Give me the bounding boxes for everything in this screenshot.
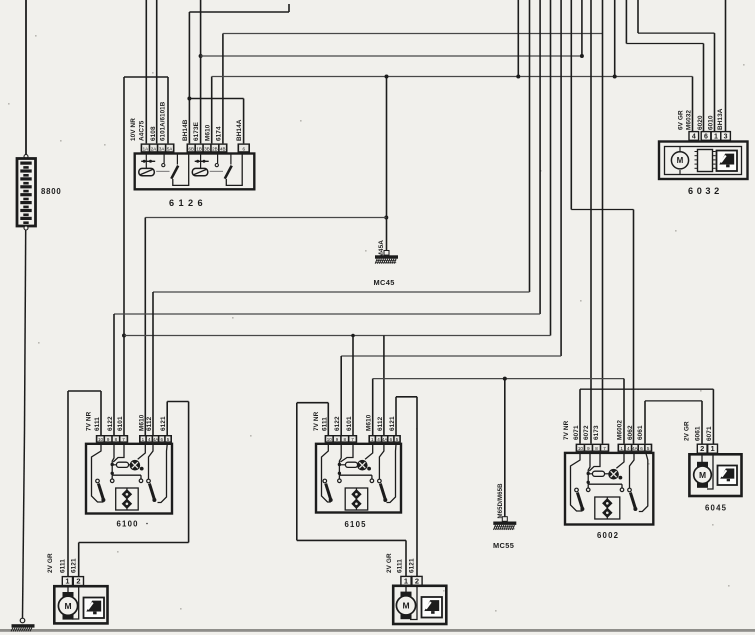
connector pins of 6045: [697, 444, 717, 453]
svg-text:6121: 6121: [71, 558, 78, 573]
front-left window motor box: [54, 586, 107, 623]
svg-text:M: M: [699, 470, 706, 480]
svg-text:2: 2: [700, 444, 704, 453]
svg-text:10: 10: [98, 437, 104, 442]
svg-text:6122: 6122: [334, 416, 341, 431]
relay box 6126: [135, 154, 255, 190]
wire 8800 top feed: [25, 0, 27, 155]
svg-text:8800: 8800: [41, 187, 62, 196]
svg-text:M610: M610: [366, 414, 373, 431]
svg-text:3A: 3A: [159, 147, 165, 152]
bundle wire 3 (net 6122 front left): [114, 0, 540, 314]
svg-text:6020: 6020: [697, 115, 704, 130]
wire 6122 into 6100: [113, 314, 115, 435]
svg-text:M65D/M65B: M65D/M65B: [497, 483, 504, 519]
ground for 8800 (bottom left): [11, 618, 35, 631]
window motor box 6045: [689, 454, 741, 496]
net 6101 riser and link to 6126: [122, 77, 168, 338]
net 6173E horizontal: [201, 54, 584, 58]
svg-text:M6032: M6032: [685, 110, 692, 130]
svg-text:6111: 6111: [94, 417, 101, 431]
switch connector block (two diamonds): [116, 488, 139, 511]
svg-text:M: M: [64, 601, 71, 611]
wire 6108: [156, 0, 158, 143]
svg-text:6173E: 6173E: [193, 121, 200, 141]
svg-text:6061: 6061: [637, 425, 644, 440]
svg-text:2V GR: 2V GR: [684, 421, 691, 441]
wire M45A to ground MC45: [384, 77, 388, 255]
motor symbol front-left: [58, 586, 78, 620]
connector strips of 6105: [325, 435, 401, 443]
bundle wire 8 (net 6072): [590, 0, 592, 444]
svg-text:1: 1: [711, 444, 715, 453]
wire BH14A: [243, 99, 245, 144]
labels of 6100 wires: [86, 411, 168, 431]
labels of mid motor wires: [386, 553, 416, 573]
motor symbol 6045: [694, 454, 713, 489]
wire M610 into 6105: [372, 379, 374, 435]
svg-text:6071: 6071: [573, 425, 580, 440]
svg-text:1: 1: [404, 576, 408, 585]
wire M6032 drop: [692, 77, 694, 132]
connector pins of front-left motor: [62, 577, 83, 586]
wire M6002 drop: [623, 379, 625, 444]
window glass icon mid: [422, 597, 443, 618]
bundle wire 10 (to M610 net): [614, 0, 616, 77]
svg-text:M: M: [677, 156, 684, 165]
switch internal wiring: [322, 445, 397, 503]
wire M610 from 6126: [211, 77, 213, 144]
wire BH13A: [725, 0, 727, 132]
svg-text:6010: 6010: [707, 115, 714, 130]
bundle wire 12 (net 6010): [638, 0, 715, 132]
svg-text:5A: 5A: [167, 147, 173, 152]
svg-text:6062: 6062: [627, 425, 634, 440]
svg-text:2V GR: 2V GR: [386, 553, 393, 573]
svg-text:6: 6: [704, 133, 708, 140]
wire 6071 and link to 6045 pin 1: [580, 389, 713, 444]
svg-text:2V GR: 2V GR: [47, 553, 54, 573]
svg-text:6112: 6112: [377, 416, 384, 431]
wire 6173E riser: [199, 0, 203, 143]
wire 6121 / bracket to motor pin 2: [79, 402, 189, 577]
svg-text:3B: 3B: [204, 147, 210, 152]
net M610 branch to 6100: [145, 218, 386, 436]
svg-text:6B: 6B: [188, 147, 194, 152]
labels of 6045 wires: [684, 421, 714, 441]
bundle wire 2 (net 6112 front left): [153, 0, 530, 292]
svg-text:6126: 6126: [169, 198, 207, 208]
svg-text:7V NR: 7V NR: [313, 411, 320, 431]
svg-text:6108: 6108: [150, 126, 157, 141]
svg-text:1A: 1A: [143, 147, 149, 152]
switch box 6100: [86, 444, 172, 514]
svg-text:BH13A: BH13A: [717, 108, 724, 130]
svg-text:6105: 6105: [345, 520, 367, 529]
svg-text:1: 1: [714, 133, 718, 140]
svg-text:1B: 1B: [196, 147, 202, 152]
svg-text:M6002: M6002: [617, 420, 624, 440]
svg-text:6111: 6111: [321, 417, 328, 431]
svg-text:M610: M610: [204, 124, 211, 141]
svg-text:10V NR: 10V NR: [130, 118, 137, 141]
svg-text:2A: 2A: [151, 147, 157, 152]
svg-text:6121: 6121: [389, 416, 396, 431]
svg-text:M610: M610: [138, 414, 145, 431]
labels of 6002 wires: [563, 420, 644, 440]
wire 6101 into 6100: [123, 336, 125, 436]
svg-text:4B: 4B: [220, 147, 226, 152]
relay 1 of 6126: [139, 153, 189, 186]
wire 6122 into 6105: [340, 356, 342, 435]
switch contact right: [378, 445, 388, 503]
switch internal wiring: [92, 445, 168, 503]
svg-text:6112: 6112: [146, 416, 153, 431]
connector pins of 6032: [689, 132, 730, 141]
bundle wire 11 (net 6020): [626, 0, 703, 132]
wire 6121 / bracket to mid motor pin 2: [396, 397, 417, 577]
svg-text:6122: 6122: [107, 416, 114, 431]
svg-text:MC45: MC45: [374, 278, 395, 287]
svg-text:6061: 6061: [695, 426, 702, 441]
wire 6101 into 6105: [351, 334, 355, 435]
svg-text:6111: 6111: [397, 559, 404, 573]
svg-text:6101: 6101: [117, 416, 124, 431]
switch box 6105: [316, 444, 401, 513]
ground MC45: [384, 251, 389, 256]
svg-text:4A: 4A: [632, 446, 638, 451]
svg-text:7V NR: 7V NR: [86, 411, 93, 431]
bundle wire 6 (net 6062): [571, 0, 633, 444]
labels of 6032 wires: [678, 108, 724, 130]
window glass icon 6045: [718, 466, 738, 486]
svg-text:10: 10: [327, 437, 333, 442]
motor unit box 6032: [659, 142, 748, 180]
svg-text:2: 2: [76, 577, 80, 586]
wire M65D/M65B to ground MC55: [504, 379, 506, 521]
svg-text:6100: 6100: [117, 520, 139, 529]
window glass icon in 6032: [717, 151, 738, 172]
svg-text:2: 2: [415, 576, 419, 585]
wire 6112 into 6105: [383, 336, 385, 436]
svg-text:6032: 6032: [688, 186, 723, 196]
svg-text:1: 1: [65, 577, 69, 586]
wire 8800 bottom to ground: [23, 226, 29, 618]
mid window motor box: [393, 586, 446, 624]
bundle wire 4 (net 6101): [124, 0, 551, 336]
connector strips of 6002: [576, 444, 653, 452]
motor symbol mid: [396, 585, 417, 619]
svg-text:6121: 6121: [409, 558, 416, 573]
connector pins of mid motor: [401, 576, 422, 585]
svg-text:3: 3: [724, 133, 728, 140]
wire 6061 and link to 6045 pin 2: [645, 401, 702, 444]
labels of 6105 wires: [313, 411, 396, 431]
wire 6111 / bracket to motor pin 1: [68, 391, 101, 577]
svg-text:6V GR: 6V GR: [678, 110, 685, 130]
svg-text:6072: 6072: [583, 425, 590, 440]
svg-text:10: 10: [578, 446, 584, 451]
net M610/M6002 horizontal: [373, 377, 624, 381]
svg-text:4A: 4A: [153, 437, 159, 442]
svg-text:M: M: [402, 600, 409, 610]
svg-text:6071: 6071: [706, 426, 713, 441]
wire 6111 / bracket to mid motor pin 1: [297, 403, 406, 577]
svg-text:6121: 6121: [160, 416, 167, 431]
wire BH14B: [187, 4, 289, 143]
page bottom edge line: [0, 629, 755, 632]
switch connector block (two diamonds): [345, 488, 368, 511]
svg-text:6101A/6101B: 6101A/6101B: [159, 101, 166, 141]
svg-text:7V NR: 7V NR: [563, 420, 570, 440]
svg-text:MC55: MC55: [493, 541, 514, 550]
bundle wire 1 (to M610 net): [517, 0, 519, 77]
connector strips of 6100: [96, 435, 172, 443]
switch contact right: [147, 445, 157, 503]
window glass icon front-left: [84, 598, 105, 619]
svg-text:BH14A: BH14A: [236, 119, 243, 141]
ground MC55: [502, 517, 507, 522]
bundle wire 9 (net 6173): [602, 0, 604, 444]
switch contact left: [323, 479, 333, 502]
svg-text:6045: 6045: [705, 504, 727, 513]
svg-text:6173: 6173: [593, 425, 600, 440]
svg-text:4A: 4A: [382, 437, 388, 442]
net M610 main horizontal: [212, 75, 693, 79]
svg-text:6174: 6174: [215, 126, 222, 141]
switch contact left: [96, 479, 106, 502]
svg-text:A4C75: A4C75: [139, 120, 146, 141]
svg-text:6111: 6111: [60, 559, 67, 573]
svg-text:6002: 6002: [597, 531, 619, 540]
connector strip of 6126 (10V NR): [141, 143, 250, 152]
svg-text:4: 4: [692, 133, 696, 140]
bundle wire 5 (net 6122 front right): [341, 0, 561, 356]
svg-text:2B: 2B: [212, 147, 218, 152]
svg-text:BH14B: BH14B: [182, 119, 189, 141]
component 8800 (heated screen element): [17, 155, 36, 227]
wire 6112 into 6100: [152, 292, 154, 435]
switch box 6002: [565, 453, 653, 525]
wire A4C75: [145, 0, 147, 143]
bundle wire 7 (to 6173E net): [581, 0, 583, 56]
wire 6174: [223, 34, 603, 144]
switch 6002 internal wiring: [571, 454, 648, 520]
regulator element in 6032: [695, 150, 716, 172]
svg-text:6101: 6101: [346, 416, 353, 431]
motor symbol in 6032: [665, 147, 742, 175]
labels of 6126 wires: [130, 101, 243, 141]
relay 2 of 6126: [192, 153, 242, 186]
labels of front-left motor wires: [47, 553, 78, 573]
